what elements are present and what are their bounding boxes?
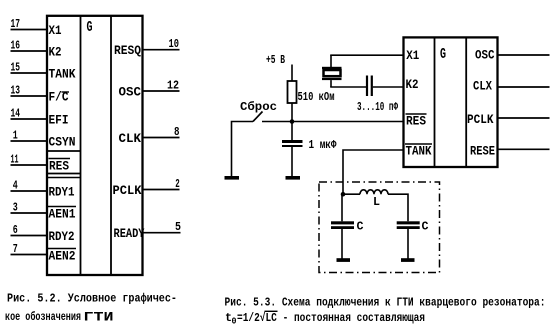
- value label 1 мкФ: [309, 138, 338, 152]
- svg-text:кое обозначения: кое обозначения: [5, 309, 81, 324]
- svg-text:AEN2: AEN2: [49, 249, 76, 264]
- svg-text:Рис. 5.3. Схема подключения к: Рис. 5.3. Схема подключения к ГТИ кварце…: [225, 296, 546, 310]
- svg-text:ГТИ: ГТИ: [84, 310, 114, 325]
- pin label CLK: [119, 131, 142, 146]
- IC D1 function label G: [87, 19, 93, 36]
- ground bar (C2): [286, 176, 301, 180]
- ground bar (C4): [401, 258, 415, 262]
- svg-text:RES: RES: [406, 114, 426, 129]
- svg-text:12: 12: [167, 79, 179, 93]
- IC D1 middle/right column divider: [110, 16, 112, 275]
- wire pin 6: [11, 235, 49, 237]
- label C (right): [422, 220, 429, 234]
- svg-text:TANK: TANK: [49, 67, 76, 82]
- pin label AEN1 with overline: [48, 207, 77, 222]
- wire pin 7: [11, 254, 49, 256]
- pin label X1: [49, 23, 62, 38]
- label C (left): [357, 220, 364, 234]
- svg-text:3...10 пФ: 3...10 пФ: [357, 100, 399, 114]
- svg-text:G: G: [440, 46, 446, 63]
- svg-text:K2: K2: [406, 77, 419, 92]
- svg-text:8: 8: [174, 125, 180, 139]
- wire pin 16: [11, 50, 49, 52]
- svg-text:0: 0: [232, 317, 237, 327]
- wire pin 1: [11, 140, 49, 142]
- svg-text:RES: RES: [49, 159, 69, 174]
- wire CLX output: [498, 86, 550, 88]
- pin label RDY1: [49, 185, 75, 200]
- IC D2 pin label RES with overline: [406, 114, 427, 129]
- separator above RES cell: [47, 150, 81, 152]
- wire RESE output: [498, 148, 550, 150]
- wire X1 net: [330, 54, 403, 56]
- pin number 4: [13, 179, 18, 193]
- svg-text:17: 17: [11, 17, 21, 31]
- IC D1 clock generator outline: [47, 16, 143, 275]
- caption fig 5.2 line 2: [5, 309, 114, 325]
- junction tank node: [341, 192, 346, 197]
- svg-text:READY: READY: [114, 226, 145, 241]
- svg-text:G: G: [87, 19, 93, 36]
- svg-text:5: 5: [175, 220, 181, 234]
- svg-text:AEN1: AEN1: [49, 207, 76, 222]
- svg-text:1: 1: [13, 129, 18, 143]
- wire pin 17: [11, 29, 49, 31]
- wire pin 11: [11, 164, 49, 166]
- pin number 17: [11, 17, 21, 31]
- label L: [373, 195, 380, 209]
- ground bar (C3): [337, 258, 351, 262]
- pin label K2: [49, 45, 62, 60]
- IC D2 pin label RESE: [470, 144, 495, 159]
- LC tank dash-dot enclosure: [319, 182, 440, 273]
- svg-text:2: 2: [175, 177, 180, 191]
- wire pin 2: [144, 189, 180, 191]
- capacitor C2 1uF plates: [282, 122, 303, 177]
- pin label RES with overline: [49, 159, 71, 174]
- svg-text:RESE: RESE: [470, 144, 495, 159]
- resistor R1 510k: [288, 81, 297, 103]
- wire K2 net right: [373, 86, 404, 88]
- pin number 15: [11, 61, 21, 75]
- svg-text:+5 В: +5 В: [266, 53, 285, 67]
- pin number 11: [11, 153, 19, 167]
- switch SA1 blade: [253, 112, 263, 122]
- svg-text:RDY1: RDY1: [49, 185, 75, 200]
- pin number 3: [13, 201, 18, 215]
- wire pin 4: [11, 190, 49, 192]
- wire K2 net left: [330, 86, 366, 88]
- +5V supply label: [266, 53, 285, 67]
- svg-text:X1: X1: [406, 48, 419, 63]
- pin number 13: [11, 84, 21, 98]
- svg-text:Рис. 5.2. Условное графичес-: Рис. 5.2. Условное графичес-: [7, 292, 177, 306]
- wire OSC output: [498, 54, 550, 56]
- pin number 7: [13, 242, 18, 256]
- svg-text:EFI: EFI: [49, 113, 69, 128]
- svg-text:RESQ: RESQ: [114, 43, 141, 58]
- svg-text:L: L: [373, 195, 380, 209]
- svg-text:14: 14: [11, 107, 21, 121]
- pin label RDY2: [49, 229, 75, 244]
- wire pin 13: [11, 95, 49, 97]
- pin label RESQ: [114, 43, 141, 58]
- IC D2 middle/right divider: [465, 37, 467, 167]
- wire pin 15: [11, 72, 49, 74]
- pin number 16: [11, 39, 21, 53]
- svg-text:PCLK: PCLK: [467, 112, 494, 127]
- pin label OSC: [119, 85, 142, 100]
- svg-text:K2: K2: [49, 45, 62, 60]
- pin number 10: [169, 37, 180, 51]
- svg-text:OSC: OSC: [475, 48, 495, 63]
- svg-text:X1: X1: [49, 23, 62, 38]
- IC D2 function label G: [440, 46, 446, 63]
- pin number 5: [175, 220, 181, 234]
- separator below RES cell (double line): [47, 174, 81, 178]
- svg-text:C: C: [422, 220, 429, 234]
- caption fig 5.2 line 1: [7, 292, 177, 306]
- IC D2 pin label CLX: [473, 79, 492, 94]
- svg-text:10: 10: [169, 37, 180, 51]
- value label 510 кОм: [298, 90, 335, 104]
- svg-text:TANK: TANK: [406, 144, 432, 159]
- pin number 1: [13, 129, 18, 143]
- svg-text:C: C: [357, 220, 364, 234]
- wire pin 10: [144, 49, 180, 51]
- IC D2 left/middle divider: [434, 37, 436, 167]
- IC D2 pin label OSC: [475, 48, 495, 63]
- svg-text:3: 3: [13, 201, 18, 215]
- svg-text:CSYN: CSYN: [49, 135, 76, 150]
- wire inductor to right cap: [388, 194, 408, 221]
- pin number 14: [11, 107, 21, 121]
- svg-text:OSC: OSC: [119, 85, 142, 100]
- wire pin 8: [144, 137, 180, 139]
- pin label F/C with overline on C: [49, 90, 70, 105]
- IC D2 pin label X1: [406, 48, 419, 63]
- IC D2 pin label K2: [406, 77, 419, 92]
- svg-text:6: 6: [13, 223, 18, 237]
- pin number 8: [174, 125, 180, 139]
- svg-text:16: 16: [11, 39, 21, 53]
- IC D2 pin label TANK with overline: [405, 144, 432, 159]
- pin number 6: [13, 223, 18, 237]
- wire TANK net: [343, 150, 404, 194]
- pin label AEN2 with overline: [48, 249, 77, 264]
- wire pin 5: [144, 232, 181, 234]
- svg-text:CLX: CLX: [473, 79, 492, 94]
- svg-text:15: 15: [11, 61, 21, 75]
- svg-text:1 мкФ: 1 мкФ: [309, 138, 338, 152]
- caption fig 5.3 line 1: [225, 296, 546, 310]
- capacitor C3 (left): [331, 194, 354, 258]
- pin number 12: [167, 79, 179, 93]
- wire switch left: [232, 122, 254, 177]
- ground bar (switch side): [225, 176, 240, 180]
- pin label TANK: [49, 67, 76, 82]
- svg-text:7: 7: [13, 242, 18, 256]
- pin number 2: [175, 177, 180, 191]
- wire pin 12: [144, 90, 180, 92]
- inductor L1: [360, 190, 388, 194]
- svg-text:PCLK: PCLK: [113, 183, 142, 198]
- capacitor C1 3..10pF: [367, 76, 372, 97]
- pin label READY: [114, 226, 145, 241]
- svg-text:RDY2: RDY2: [49, 229, 75, 244]
- value label 3...10 пФ: [357, 100, 399, 114]
- svg-text:4: 4: [13, 179, 18, 193]
- svg-text:510 кОм: 510 кОм: [298, 90, 335, 104]
- junction resistor/cap on RES net: [290, 119, 295, 124]
- pin label EFI: [49, 113, 69, 128]
- crystal BQ1: [322, 55, 342, 87]
- svg-text:CLK: CLK: [119, 131, 142, 146]
- wire PCLK output: [498, 117, 550, 119]
- svg-text:13: 13: [11, 84, 21, 98]
- wire +5V to resistor: [291, 65, 293, 82]
- svg-text:11: 11: [11, 153, 19, 167]
- svg-text:Сброс: Сброс: [240, 99, 277, 114]
- wire RES net to IC: [262, 121, 404, 123]
- svg-text:=1/2√LC - постоянная составляю: =1/2√LC - постоянная составляющая: [237, 311, 425, 325]
- IC D2 clock generator outline: [404, 37, 498, 167]
- wire resistor to RES net: [291, 103, 293, 122]
- wire node to inductor: [343, 193, 360, 195]
- wire pin 14: [11, 118, 49, 120]
- capacitor C4 (right): [397, 221, 420, 258]
- caption fig 5.3 line 2 formula t0=1/2*sqrt(LC) - постоянная составляющая: [225, 311, 425, 327]
- IC D1 left/middle column divider: [80, 16, 82, 275]
- IC D2 pin label PCLK: [467, 112, 494, 127]
- pin label PCLK: [113, 183, 142, 198]
- wire pin 3: [11, 212, 49, 214]
- pin label CSYN: [49, 135, 76, 150]
- label Сброс: [240, 99, 277, 114]
